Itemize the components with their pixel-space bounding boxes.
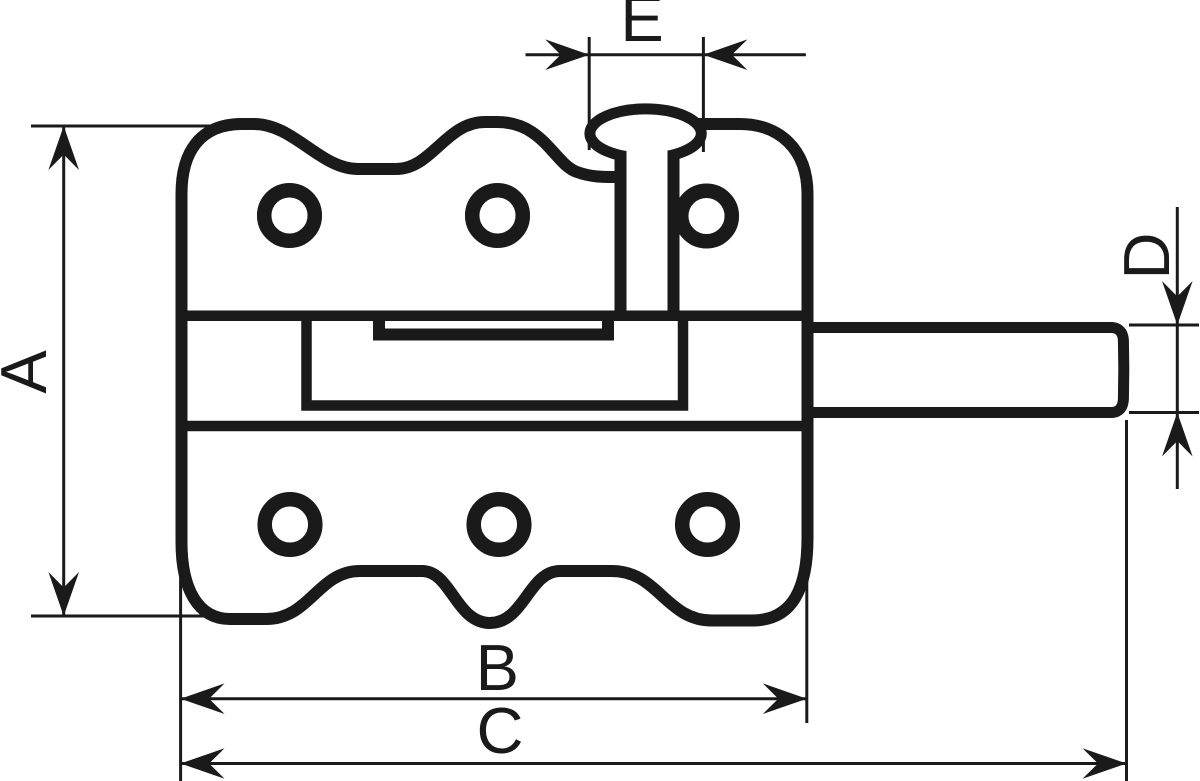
svg-text:A: A — [0, 350, 60, 394]
svg-text:C: C — [477, 694, 524, 767]
svg-text:D: D — [1110, 233, 1183, 280]
svg-text:E: E — [620, 0, 663, 55]
